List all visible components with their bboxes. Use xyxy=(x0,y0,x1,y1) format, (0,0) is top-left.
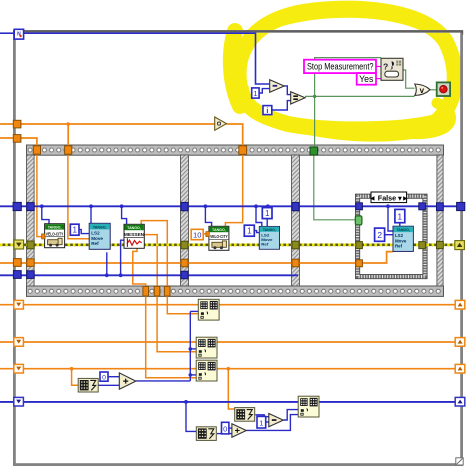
wire blue mid index array out to plus lower xyxy=(98,384,119,386)
while loop resize grip corner xyxy=(456,458,463,465)
wire blue bottom 0 const to plus upper xyxy=(229,427,232,429)
wire blue bus branch to frame2 upper 1 const xyxy=(267,206,269,208)
VI TANGO VELOCITY frame2 xyxy=(209,226,229,250)
tunnel orange sequence left border row263 xyxy=(27,259,34,267)
VI TANGO LS2 Move Ref frame1 xyxy=(89,223,110,249)
wire blue mid plus out to index vertical xyxy=(136,380,190,382)
wire blue case 1 const down to moveref3 top xyxy=(399,223,401,227)
tunnel orange indexing right border row342 xyxy=(455,338,465,347)
yellow highlighter left blob xyxy=(231,31,240,106)
tunnel blue indexing right border row401 xyxy=(455,397,465,406)
svg-text:Yes: Yes xyxy=(359,74,374,84)
wire green dialog out to OR gate top input xyxy=(403,70,415,88)
wire blue bottom plus out up to node D xyxy=(246,415,298,431)
OR gate xyxy=(415,84,430,96)
wire orange branch down to index array upper right xyxy=(228,369,234,409)
tunnel orange solid left border row138 xyxy=(13,135,21,143)
VI TANGO MESSEN frame1 xyxy=(124,224,145,248)
tunnel olive divider1 error xyxy=(181,241,188,249)
tunnel olive case right border error xyxy=(419,242,426,249)
wire blue bus branch to moveref2 via x256 xyxy=(256,206,262,226)
wire blue upper index array out to minus xyxy=(255,415,268,417)
wire green OR out to stop terminal xyxy=(430,89,437,91)
loop stop condition terminal xyxy=(437,82,450,96)
wire blue i terminal to equal lower input xyxy=(272,101,291,110)
decrement node xyxy=(270,80,285,93)
wire orange below strip x145.7 to node C second input xyxy=(146,296,197,377)
svg-text:0: 0 xyxy=(223,424,227,433)
svg-text:?: ? xyxy=(383,62,388,72)
tunnel orange sequence top border 3 xyxy=(239,146,247,155)
svg-text:2: 2 xyxy=(377,230,382,240)
label Stop Measurement? xyxy=(304,60,376,73)
wire green up from junction to dialog left input xyxy=(315,58,381,97)
wire blue bus branch to moveref1 top xyxy=(90,206,92,223)
wire orange row y124 from left edge to convert triangle xyxy=(0,123,215,125)
tunnel blue indexing left border row401 xyxy=(14,397,24,406)
svg-text:1: 1 xyxy=(259,418,263,427)
tunnel orange solid left border row263 xyxy=(13,259,21,267)
wire orange tunnel1 down to velocity1 left input xyxy=(37,155,43,237)
wire orange 10 const to velocity2 left input xyxy=(203,233,206,235)
yellow highlighter annotation main loop xyxy=(231,9,455,138)
wire error cluster dashed olive-yellow row y244.8 xyxy=(0,244,458,247)
constant 1 case frame xyxy=(395,209,405,222)
yellow highlighter bottom swoosh xyxy=(300,129,434,138)
wire orange node C out to right tunnel xyxy=(217,368,456,370)
add node mid xyxy=(119,373,136,389)
tunnel olive sequence right border error xyxy=(437,241,444,248)
wire blue frame2 upper 1 const to moveref2 top xyxy=(266,219,268,227)
VI TANGO LS2 Move Ref case frame xyxy=(393,226,413,251)
index array node bottom xyxy=(196,427,216,441)
add node bottom xyxy=(232,424,246,438)
tunnel orange sequence top border 1 xyxy=(33,146,40,154)
tunnel blue solid left border bus xyxy=(13,202,21,210)
tunnel orange solid left border row124 xyxy=(13,120,21,128)
tunnel orange divider2 row263 xyxy=(292,259,299,267)
svg-text:◄ False ▾►: ◄ False ▾► xyxy=(369,194,409,203)
loop timing icon on top-left border xyxy=(14,29,23,39)
wire blue main bus row y206.3 xyxy=(0,205,461,207)
wire orange messen top out loop xyxy=(141,221,167,287)
wire orange row y342 left segment to node B xyxy=(0,341,196,343)
wire blue node D out to right tunnel xyxy=(319,401,461,403)
wire blue bus branch to velocity1 top xyxy=(42,206,49,223)
wire blue index branch to node B xyxy=(190,348,196,350)
wire orange row y304.7 left segment to node A xyxy=(0,304,198,306)
svg-text:1: 1 xyxy=(72,226,77,235)
tunnel olive sequence left border error xyxy=(27,241,34,249)
constant 1 frame2 upper xyxy=(262,208,272,219)
wire blue index branch to node A xyxy=(190,310,198,312)
constant 1 frame2 lower xyxy=(244,225,254,236)
constant 0 bottom xyxy=(222,422,229,434)
tunnel olive case left border error xyxy=(356,242,363,249)
constant 2 case frame xyxy=(375,228,385,241)
yellow highlighter bottom-right hook xyxy=(400,103,451,134)
VI TANGO VELOCITY frame1 xyxy=(45,224,65,248)
wire blue bottom 1 const to minus lower xyxy=(266,421,269,423)
wire orange frame2 tunnel down to velocity2 top input xyxy=(225,155,242,227)
tunnel blue solid right border bus xyxy=(457,202,465,210)
wire blue bus branch to velocity2 top xyxy=(205,206,211,226)
wire green equal out to OR gate xyxy=(305,95,415,97)
tunnel blue case right border bus xyxy=(419,203,426,210)
wire blue decrement out to equal upper input xyxy=(284,86,291,95)
wire blue bus branch in case down to moveref3 left xyxy=(388,206,393,231)
flat sequence right border xyxy=(437,155,443,286)
wire orange convert out down into sequence tunnel xyxy=(226,124,242,146)
wire green inside frame3 to case selector xyxy=(314,155,356,220)
tunnel blue sequence left border bus xyxy=(27,203,34,211)
wire blue row y275.3 xyxy=(0,274,298,276)
svg-text:Stop Measurement?: Stop Measurement? xyxy=(307,61,374,71)
wire blue loop-count from left edge along top xyxy=(0,32,14,34)
tunnel orange sequence bottom border 1 xyxy=(143,286,149,296)
wire magenta label Yes to dialog xyxy=(376,78,381,80)
wire blue frame1 1 const to moveref1 left xyxy=(79,230,89,234)
wire orange branch down from row124 into tunnel2 xyxy=(67,124,69,146)
tunnel orange case left border row263 xyxy=(356,260,363,267)
flat sequence structure top film strip xyxy=(27,145,444,155)
tunnel blue solid left border row275 xyxy=(13,271,21,279)
constant 0 mid xyxy=(100,372,108,381)
wire orange below strip x157.1 to node B second input xyxy=(157,296,196,351)
svg-text:1: 1 xyxy=(253,89,257,98)
wire orange below strip x167.3 to node A second input xyxy=(167,296,198,313)
tunnel orange sequence bottom border 3 xyxy=(164,286,170,296)
svg-text:1: 1 xyxy=(265,209,270,218)
svg-text:10: 10 xyxy=(193,230,201,239)
wire blue bus branch to messen top xyxy=(122,206,127,224)
wire blue branch down to bottom index array xyxy=(186,402,196,432)
insert into array node D xyxy=(298,396,319,417)
case structure selector label "False" xyxy=(369,192,409,203)
convert triangle node near row124 xyxy=(215,117,227,130)
wire blue minus out up to node D xyxy=(284,410,299,420)
constant 1 frame1 xyxy=(70,224,79,235)
tunnel blue sequence left border row275 xyxy=(27,271,34,279)
tunnel orange indexing left border row342 xyxy=(14,338,24,347)
iteration terminal i xyxy=(263,106,272,115)
svg-text:1: 1 xyxy=(397,211,402,221)
tunnel blue sequence right border bus xyxy=(437,203,444,211)
wire blue "1" const to decrement lower input xyxy=(259,89,270,93)
wire orange row y138 from left edge down into tunnel1 xyxy=(0,138,37,146)
VI TANGO LS2 Move Ref frame2 (slightly smaller) xyxy=(259,226,279,249)
index array node mid-left xyxy=(78,378,98,392)
constant 10 frame2 xyxy=(191,229,203,239)
wire blue row y401.9 left segment to node D xyxy=(0,401,298,403)
tunnel orange divider1 row263 xyxy=(181,259,188,267)
index array node upper (second row) xyxy=(235,408,255,422)
junction green xyxy=(313,95,316,98)
flat sequence frame divider 2 xyxy=(292,155,300,286)
wire orange node A out to right tunnel xyxy=(219,304,455,306)
wire green down from junction into sequence tunnel xyxy=(314,96,316,147)
wire orange messen bottom out xyxy=(133,248,146,287)
wire blue bottom index array out to plus xyxy=(217,433,232,435)
junction blue bus dots xyxy=(40,204,390,208)
tunnel orange indexing right border row368 xyxy=(455,364,465,373)
terminal orange velocity2 left xyxy=(206,232,209,237)
wire orange row y368.7 left segment to node C xyxy=(0,368,196,370)
flat sequence structure bottom film strip xyxy=(27,286,444,296)
wire orange messen mid out xyxy=(144,235,157,287)
tunnel green sequence top border xyxy=(310,147,318,155)
yellow highlighter top double stroke xyxy=(264,11,430,28)
wire blue index branch to node C xyxy=(190,374,196,376)
tunnel blue divider1 row275 xyxy=(181,271,188,279)
tunnel orange indexing right border row304 xyxy=(455,300,465,309)
two button dialog VI icon xyxy=(381,58,403,80)
tunnel orange sequence top border 2 xyxy=(65,146,72,154)
svg-text:1: 1 xyxy=(247,227,252,236)
tunnel orange indexing left border row368 xyxy=(14,364,24,373)
flat sequence left border xyxy=(27,155,35,286)
equal node xyxy=(291,92,305,104)
tunnel orange indexing left border row304 xyxy=(14,300,24,309)
wire blue index vertical x190.3 xyxy=(189,311,191,381)
label Yes xyxy=(357,73,376,85)
wire blue frame2 lower 1 const to moveref2 left xyxy=(254,231,259,233)
wire magenta label Stop Measurement to dialog xyxy=(376,66,381,68)
junction orange row124 xyxy=(66,122,70,126)
case structure border xyxy=(356,194,428,279)
insert into array node B xyxy=(196,337,217,358)
wire orange branch down to index array mid xyxy=(72,369,79,386)
tunnel olive divider2 error xyxy=(292,241,299,249)
tunnel blue divider2 bus xyxy=(292,202,299,210)
wire orange row y263 through sequence into case up to moveref3 xyxy=(0,252,393,263)
tunnel blue divider1 bus xyxy=(181,202,188,210)
constant 1 top xyxy=(252,88,259,98)
wire blue riser to moveref1 bottom xyxy=(106,252,108,275)
insert into array node A xyxy=(198,299,219,320)
flat sequence frame divider 1 xyxy=(181,155,189,286)
svg-text:v: v xyxy=(420,86,425,95)
case selector terminal xyxy=(355,216,362,225)
wire blue mid 0 const to plus upper xyxy=(108,376,119,378)
wire orange node B out to right tunnel xyxy=(216,341,455,343)
svg-text:i: i xyxy=(266,106,268,115)
constant 1 bottom xyxy=(257,416,266,428)
wire blue from N icon right, down at x255.5 to decrement xyxy=(24,33,270,84)
wire blue case 2 const to moveref3 left xyxy=(385,234,394,236)
tunnel orange sequence bottom border 2 xyxy=(154,286,160,296)
terminal orange velocity1 left xyxy=(42,234,45,239)
subtract node bottom xyxy=(269,414,284,427)
tunnel blue case left border bus xyxy=(356,203,363,210)
wire blue riser to messen left input xyxy=(121,240,125,275)
insert into array node C xyxy=(196,360,217,381)
shift register left (error) xyxy=(14,240,24,249)
shift register right (error) xyxy=(455,241,465,250)
wire orange tunnel2 down to moveref1 left input xyxy=(68,155,90,239)
svg-text:0: 0 xyxy=(102,374,106,381)
